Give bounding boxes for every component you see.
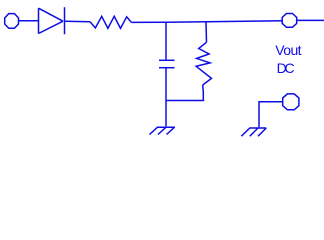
wire R2 branch from rail (205, 22, 208, 43)
bottom-right terminal J3 (283, 94, 299, 110)
resistor R2 (vertical zigzag) (196, 42, 211, 85)
label DC (277, 61, 293, 75)
wire diode to resistor R1 (65, 20, 91, 23)
label Vout (275, 43, 301, 57)
wire bottom horizontal C1 to R2 (166, 100, 204, 102)
ground 2 (below J3) (241, 128, 266, 136)
wire capacitor bottom lead down to ground (165, 68, 167, 127)
resistor R1 (horizontal zigzag) (90, 16, 131, 28)
diode D1 cathode bar (64, 7, 66, 34)
wire top rail R1 to output terminal (131, 21, 282, 23)
wire J3 to ground 2 (259, 102, 283, 128)
capacitor C1 bottom plate (159, 67, 175, 69)
wire output terminal to right edge (297, 19, 324, 21)
wire R2 bottom lead (202, 85, 205, 101)
capacitor C1 top plate (159, 59, 175, 61)
ground 1 (below capacitor) (150, 127, 176, 134)
wire capacitor branch from rail (165, 22, 167, 59)
wire input terminal to diode anode (19, 20, 39, 22)
diode D1 (39, 8, 64, 33)
output terminal J2 (282, 14, 297, 28)
input terminal J1 (5, 14, 19, 29)
